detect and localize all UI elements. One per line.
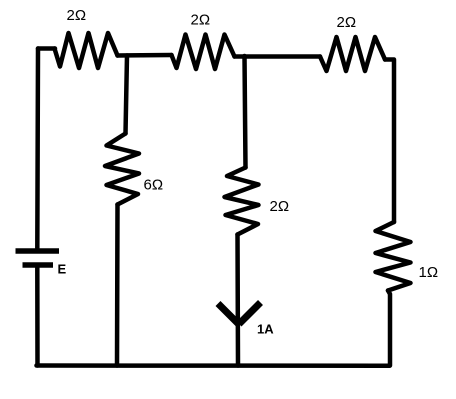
- svg-text:2Ω: 2Ω: [337, 14, 357, 31]
- node B junction wire down to middle 2ohm resistor: [245, 56, 246, 168]
- svg-text:6Ω: 6Ω: [144, 177, 164, 194]
- resistor R3 2ohm top-right: [320, 37, 385, 71]
- resistor R6 2ohm middle branch: [225, 168, 259, 235]
- svg-text:1Ω: 1Ω: [419, 264, 439, 281]
- svg-text:2Ω: 2Ω: [67, 7, 87, 24]
- wire top-left stub: [38, 46, 55, 51]
- resistor R2 2ohm top-middle: [172, 35, 235, 70]
- wire left side upper (to battery): [35, 49, 40, 250]
- battery E bottom plate: [23, 262, 54, 268]
- wire middle branch lower lead with current direction: [235, 235, 240, 366]
- wire between R2 and R3 through node B: [235, 54, 321, 59]
- svg-text:2Ω: 2Ω: [191, 12, 211, 29]
- svg-text:1A: 1A: [257, 322, 274, 337]
- battery E top plate: [16, 248, 60, 254]
- arrow head 1A current direction right wing: [239, 303, 261, 325]
- node A junction wire down to 6ohm resistor: [126, 56, 128, 134]
- wire left side lower (battery to bottom): [35, 266, 40, 366]
- resistor R4 1ohm right branch: [376, 222, 411, 291]
- resistor R5 6ohm middle-left branch: [105, 134, 139, 205]
- wire 6ohm lower lead to bottom: [115, 205, 120, 366]
- wire right branch lower lead: [388, 291, 390, 366]
- resistor R1 2ohm top-left: [55, 33, 118, 68]
- arrow head 1A current direction left wing: [218, 304, 239, 325]
- wire between R1 and R2 through node A: [118, 53, 172, 58]
- svg-text:E: E: [58, 262, 67, 277]
- wire bottom: [37, 363, 390, 368]
- svg-text:2Ω: 2Ω: [270, 198, 290, 215]
- wire top-right corner and right side down: [385, 60, 394, 223]
